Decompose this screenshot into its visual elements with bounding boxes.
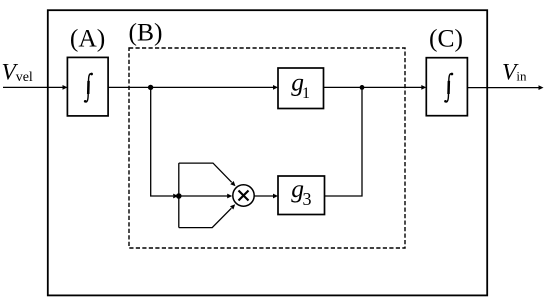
wire: funnel middle branch: [179, 195, 228, 197]
arrowhead into g1: [273, 85, 278, 90]
arrowhead into C: [421, 85, 426, 90]
wire: funnel top branch: [179, 163, 232, 182]
wire: g3 output up to main line: [325, 87, 363, 196]
wire: branch down: [151, 87, 174, 196]
svg-text:(C): (C): [429, 24, 463, 53]
svg-text:(B): (B): [129, 17, 163, 46]
svg-text:(A): (A): [70, 23, 105, 52]
arrowhead into A: [63, 85, 68, 90]
arrowhead top into multiplier: [230, 181, 235, 186]
node: merge dot: [360, 85, 365, 90]
svg-text:in: in: [516, 69, 527, 84]
wire: multiplier to g3: [254, 195, 274, 197]
integral sign in A: [84, 73, 93, 103]
svg-text:vel: vel: [16, 70, 33, 85]
multiplier cross: [239, 191, 249, 201]
node: junction dot: [176, 193, 182, 199]
wire: funnel bottom branch: [179, 208, 232, 227]
wire: input line: [3, 86, 63, 88]
arrowhead output: [539, 85, 544, 90]
multiplier circle: [233, 185, 254, 206]
outer solid border rectangle: [48, 10, 487, 295]
wire: funnel vertical: [178, 163, 180, 228]
arrowhead middle into multiplier: [227, 194, 232, 199]
wire: A to g1: [108, 86, 274, 88]
arrowhead into junction: [173, 194, 178, 199]
svg-text:3: 3: [303, 189, 312, 209]
arrowhead into g3: [273, 194, 278, 199]
integral sign in C: [444, 73, 453, 103]
dashed subsystem box B: [129, 48, 405, 248]
wire: g1 to C: [324, 86, 423, 88]
node: branch dot: [148, 85, 153, 90]
wire: output line: [467, 87, 539, 89]
integrator box A: [67, 57, 108, 116]
integrator box C: [426, 58, 467, 116]
gain box g3: [278, 176, 325, 215]
svg-text:1: 1: [302, 85, 310, 102]
gain box g1: [278, 68, 324, 109]
arrowhead bottom into multiplier: [230, 204, 235, 209]
